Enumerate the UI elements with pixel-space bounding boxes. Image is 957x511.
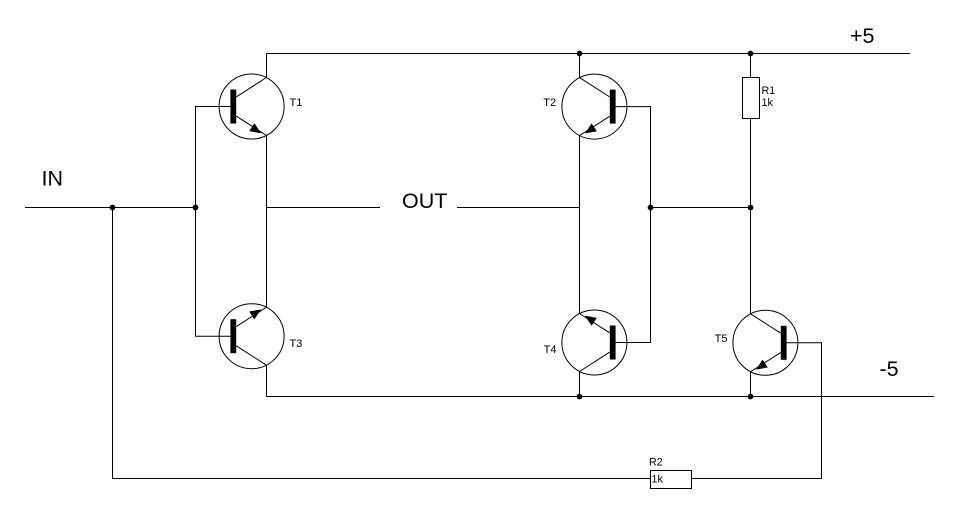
wire T1 collector stub — [266, 54, 268, 78]
wire IN to R2 (left loop) — [113, 208, 651, 479]
transistor T3 — [219, 304, 284, 369]
wire T1 base to T3 base column — [196, 107, 231, 337]
svg-text:1k: 1k — [652, 473, 664, 485]
wire -5 rail — [267, 396, 935, 398]
svg-text:T1: T1 — [290, 97, 303, 109]
wire T5 emitter to -5 rail — [750, 372, 752, 397]
wire base column to R1 column — [651, 207, 751, 209]
resistor R1 — [743, 78, 760, 119]
wire T2 emitter to T4 column — [579, 136, 581, 314]
svg-text:OUT: OUT — [402, 189, 447, 213]
svg-text:-5: -5 — [880, 357, 899, 381]
transistor T2 — [562, 74, 627, 139]
label R2 value — [649, 456, 663, 485]
svg-text:R2: R2 — [649, 456, 663, 468]
junction +5/R1 — [748, 51, 754, 57]
wire T2 collector stub — [579, 54, 581, 78]
wire R1 bottom to T5 collector — [750, 119, 752, 314]
svg-text:T5: T5 — [715, 333, 728, 345]
transistor T4 — [562, 310, 627, 375]
wire T4 collector to -5 rail — [579, 372, 581, 397]
junction -5/T4 emitter — [577, 394, 583, 400]
svg-text:T3: T3 — [290, 338, 303, 350]
svg-text:1k: 1k — [762, 97, 774, 109]
junction R1-column/mid-wire — [748, 205, 754, 211]
svg-text:+5: +5 — [850, 24, 875, 48]
junction IN/left-loop — [110, 205, 116, 211]
svg-text:R1: R1 — [762, 85, 776, 97]
wire R1 top stub — [750, 54, 752, 78]
wire +5 rail — [267, 53, 911, 55]
svg-text:T4: T4 — [544, 344, 557, 356]
transistor T5 — [733, 310, 798, 375]
label R1 value — [762, 85, 776, 109]
junction +5/T2 collector — [577, 51, 583, 57]
wire T1 emitter to T3 column — [266, 136, 268, 308]
transistor T1 — [219, 74, 284, 139]
wire IN horizontal — [25, 207, 196, 209]
junction -5/T5 emitter — [748, 394, 754, 400]
resistor R2 — [651, 471, 692, 489]
svg-text:T2: T2 — [543, 97, 556, 109]
wire T3 collector to -5 rail — [266, 365, 268, 396]
wire OUT left segment — [267, 207, 381, 209]
junction IN/base-column — [193, 205, 199, 211]
wire R2 to T5 base — [692, 343, 822, 479]
svg-text:IN: IN — [42, 166, 64, 190]
junction base-column/mid-wire — [648, 205, 654, 211]
wire OUT right segment — [457, 207, 580, 209]
wire T2 base to T4 base column — [615, 107, 650, 343]
